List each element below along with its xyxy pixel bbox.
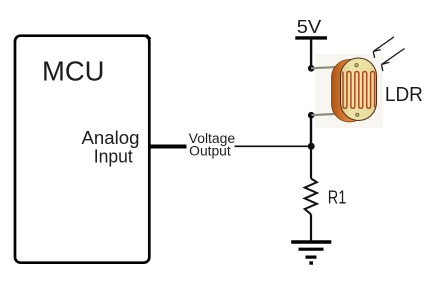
svg-text:Output: Output: [189, 143, 231, 158]
MCU block U1: [15, 36, 149, 263]
wire voltage output to junction: [235, 145, 312, 147]
pin stub analog input: [148, 145, 187, 149]
node junction voltage output: [308, 143, 315, 150]
wire junction to resistor: [310, 146, 312, 178]
light arrow 2: [382, 49, 405, 72]
svg-text:LDR: LDR: [385, 84, 423, 106]
node LDR top lead junction: [308, 65, 315, 72]
wire LDR bottom to junction: [310, 115, 312, 146]
svg-text:MCU: MCU: [42, 55, 105, 86]
LDR top lead: [311, 67, 341, 69]
node LDR bottom lead junction: [308, 112, 315, 119]
svg-text:5V: 5V: [297, 17, 322, 37]
LDR bottom lead: [311, 114, 341, 116]
ground symbol: [291, 242, 331, 263]
wire resistor to ground: [310, 214, 312, 240]
power rail 5V bar: [295, 36, 327, 39]
svg-text:R1: R1: [328, 187, 347, 208]
photo backdrop of LDR: [315, 54, 383, 128]
svg-text:Input: Input: [94, 146, 133, 167]
photoresistor LDR body: [332, 58, 377, 122]
resistor R1: [305, 179, 317, 215]
wire 5V to LDR top lead: [310, 38, 312, 68]
MCU box corner bevel: [146, 35, 150, 39]
light arrow 1: [373, 37, 394, 58]
